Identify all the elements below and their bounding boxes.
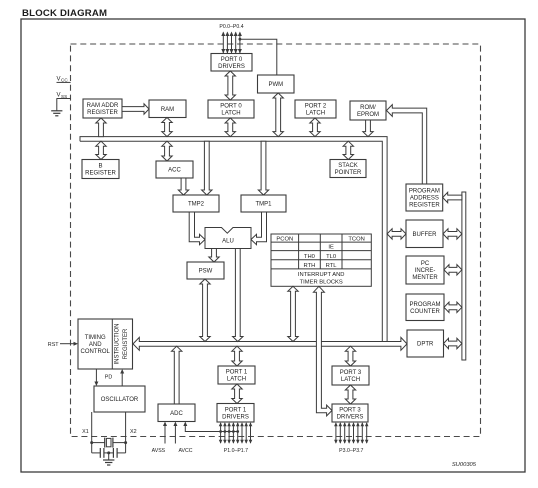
arrow interrupt blocks to PORT 3 DRIVERS (long L-shaped) — [313, 286, 332, 416]
pin AVCC arrow — [173, 422, 177, 444]
svg-text:ADC: ADC — [170, 411, 183, 417]
arrow bus / BUFFER — [387, 229, 406, 239]
arrow PSW / lower bus — [200, 279, 210, 342]
arrow bar to PROGRAM ADDRESS REGISTER — [443, 192, 462, 202]
svg-text:REGISTER: REGISTER — [409, 203, 440, 209]
svg-text:PORT 0: PORT 0 — [221, 57, 243, 63]
svg-text:PSW: PSW — [199, 269, 213, 275]
port 3 pin arrows P3.0-P3.7 — [334, 422, 368, 444]
svg-text:CC: CC — [61, 78, 68, 83]
arrow bus / B REGISTER — [96, 141, 106, 159]
svg-text:TL0: TL0 — [326, 254, 336, 260]
wire oscillator X1 leg — [91, 412, 93, 443]
wire X1 leg down — [91, 443, 93, 453]
text TIMING AND CONTROL — [81, 335, 111, 355]
svg-text:PORT 1: PORT 1 — [225, 407, 247, 413]
arrow PROGRAM COUNTER / bar — [444, 302, 462, 312]
ground (crystal) — [103, 453, 114, 465]
svg-text:COUNTER: COUNTER — [410, 309, 440, 315]
svg-text:BLOCK DIAGRAM: BLOCK DIAGRAM — [22, 8, 107, 19]
svg-text:LATCH: LATCH — [306, 111, 325, 117]
svg-text:INTERRUPT AND: INTERRUPT AND — [298, 272, 345, 278]
arrow TMP1 to ALU (L-shaped) — [251, 212, 267, 245]
wire X2 leg down — [125, 443, 127, 453]
svg-text:PROGRAM: PROGRAM — [409, 302, 440, 308]
block PORT 3 LATCH — [332, 366, 369, 385]
svg-text:INCRE-: INCRE- — [415, 268, 436, 274]
svg-text:ACC: ACC — [168, 168, 181, 174]
node X2 junction — [124, 441, 127, 444]
block ROM/EPROM — [350, 101, 386, 120]
pin VCC — [57, 76, 71, 82]
svg-text:INSTRUCTION: INSTRUCTION — [115, 324, 121, 365]
svg-text:REGISTER: REGISTER — [87, 110, 118, 116]
wire PROGRAM ADDRESS REGISTER to ROM/EPROM (bus arrow) — [387, 105, 427, 184]
pin VSS — [57, 93, 71, 99]
svg-text:TMP1: TMP1 — [255, 202, 272, 208]
block ALU (notched top) — [205, 228, 251, 249]
block TMP2 — [173, 195, 219, 212]
arrow TMP2 to ALU (L-shaped) — [189, 212, 205, 245]
crystal Y1 — [92, 438, 126, 448]
svg-text:AVSS: AVSS — [152, 448, 166, 454]
svg-text:PORT 3: PORT 3 — [340, 370, 362, 376]
svg-text:PORT 2: PORT 2 — [305, 104, 327, 110]
svg-text:AVCC: AVCC — [178, 448, 192, 454]
arrow lower bus / PORT 3 LATCH — [345, 346, 355, 366]
arrow ROM/EPROM to bus — [363, 120, 373, 137]
arrow DPTR / bar — [444, 338, 462, 348]
svg-text:V: V — [57, 93, 61, 99]
svg-text:P1.0–P1.7: P1.0–P1.7 — [224, 448, 248, 454]
block PSW — [187, 262, 224, 279]
svg-text:MENTER: MENTER — [412, 275, 438, 281]
block STACK POINTER — [330, 160, 366, 178]
svg-text:PD: PD — [105, 374, 113, 380]
block DPTR — [407, 330, 444, 357]
svg-text:LATCH: LATCH — [227, 377, 246, 383]
arrow lower bus / PORT 1 LATCH — [232, 346, 242, 366]
svg-text:TMP2: TMP2 — [188, 202, 205, 208]
svg-text:RAM: RAM — [161, 107, 174, 113]
arrow port0 drivers / port0 latch — [225, 71, 235, 100]
svg-text:SU00305: SU00305 — [452, 462, 477, 468]
svg-text:PWM: PWM — [268, 82, 283, 88]
arrow ALU to lower bus — [233, 249, 243, 342]
svg-text:AND: AND — [89, 342, 102, 348]
arrow timing to oscillator — [94, 369, 98, 386]
svg-text:BUFFER: BUFFER — [413, 232, 438, 238]
svg-text:TIMING: TIMING — [85, 335, 106, 341]
svg-text:OSCILLATOR: OSCILLATOR — [101, 397, 139, 403]
block PROGRAM COUNTER — [406, 294, 444, 321]
block TIMING AND CONTROL with INSTRUCTION REGISTER — [78, 319, 133, 369]
svg-text:CONTROL: CONTROL — [81, 349, 111, 355]
svg-text:PROGRAM: PROGRAM — [409, 189, 440, 195]
arrow bus to TMP2 — [202, 141, 212, 195]
svg-text:PC: PC — [421, 261, 430, 267]
svg-text:RTH: RTH — [303, 263, 315, 269]
svg-text:DRIVERS: DRIVERS — [218, 64, 245, 70]
port 0 pin arrows P0.0-P0.4 — [221, 32, 242, 54]
main bus upper (horizontal, with right-side vertical wrap) — [80, 137, 387, 342]
block PORT 2 LATCH — [295, 100, 336, 118]
svg-text:RST: RST — [48, 342, 59, 348]
divider timing/instruction register — [111, 319, 113, 369]
block PWM — [258, 75, 295, 93]
svg-text:RTL: RTL — [326, 263, 338, 269]
arrow PWM / bus — [273, 93, 283, 137]
block PORT 1 DRIVERS — [217, 404, 254, 423]
arrow oscillator to instruction register — [120, 369, 124, 386]
arrow bus to TMP1 — [258, 141, 268, 195]
main bus lower (horizontal, arrow into instruction register and into DPTR) — [133, 337, 407, 350]
svg-text:TCON: TCON — [348, 236, 364, 242]
block RAM — [149, 100, 186, 118]
block PROGRAM ADDRESS REGISTER — [406, 184, 443, 211]
block PORT 0 DRIVERS — [211, 54, 252, 72]
block PC INCREMENTER — [406, 256, 444, 284]
svg-text:DRIVERS: DRIVERS — [222, 414, 249, 420]
arrow PORT 2 LATCH / bus — [310, 118, 320, 137]
svg-text:P0.0–P0.4: P0.0–P0.4 — [219, 24, 243, 30]
svg-text:POINTER: POINTER — [335, 170, 362, 176]
svg-text:ADDRESS: ADDRESS — [410, 196, 439, 202]
table INTERRUPT AND TIMER BLOCKS (PCON TCON IE TH0 TL0 RTH RTL) — [271, 234, 371, 286]
text INSTRUCTION REGISTER (vertical) — [115, 324, 130, 365]
svg-text:REGISTER: REGISTER — [85, 171, 116, 177]
svg-text:PCON: PCON — [276, 236, 293, 242]
block BUFFER — [406, 220, 443, 248]
arrow bus / STACK POINTER — [343, 141, 353, 159]
svg-text:LATCH: LATCH — [341, 377, 360, 383]
arrow BUFFER / bar — [443, 229, 462, 239]
svg-text:DRIVERS: DRIVERS — [337, 415, 364, 421]
svg-text:DPTR: DPTR — [417, 342, 434, 348]
svg-text:IE: IE — [328, 245, 334, 251]
svg-text:STACK: STACK — [338, 163, 358, 169]
svg-text:EPROM: EPROM — [357, 112, 379, 118]
dashed chip boundary — [71, 44, 481, 437]
arrow PORT 3 LATCH / PORT 3 DRIVERS — [345, 385, 355, 404]
arrow bus / ACC — [162, 141, 172, 161]
svg-text:X2: X2 — [130, 429, 137, 435]
wire pin P0.4 to PWM — [239, 38, 277, 75]
wire analog input from port1 pins to ADC (with junction dots) — [183, 422, 239, 433]
svg-text:PORT 3: PORT 3 — [339, 408, 361, 414]
port 1 pin arrows P1.0-P1.7 — [219, 422, 253, 444]
node capacitor midpoint — [107, 451, 110, 454]
wire oscillator X2 leg — [125, 412, 127, 443]
pin AVSS arrow — [163, 422, 167, 444]
block B REGISTER — [82, 160, 119, 179]
svg-text:LATCH: LATCH — [221, 111, 240, 117]
arrow bus to RAM ADDR REGISTER — [96, 118, 106, 137]
arrow ALU to PSW — [209, 249, 219, 263]
svg-text:P3.0–P3.7: P3.0–P3.7 — [339, 448, 363, 454]
block OSCILLATOR — [94, 386, 145, 412]
arrow RAM ADDR REGISTER to RAM — [122, 104, 149, 114]
capacitor C1 — [92, 448, 109, 458]
block PORT 0 LATCH — [208, 100, 254, 118]
program bus bar (right vertical) — [462, 192, 466, 360]
svg-text:TIMER BLOCKS: TIMER BLOCKS — [300, 279, 343, 285]
block PORT 3 DRIVERS — [332, 404, 368, 422]
arrow interrupt blocks / lower bus — [288, 286, 298, 341]
block ADC — [158, 404, 195, 422]
arrow PORT 0 LATCH / bus — [225, 118, 235, 137]
block TMP1 — [241, 195, 286, 212]
block ACC — [156, 161, 193, 178]
arrow ADC to lower bus — [172, 346, 182, 404]
svg-text:ALU: ALU — [222, 238, 234, 244]
capacitor C2 — [109, 448, 126, 458]
svg-text:V: V — [57, 76, 61, 82]
svg-text:TH0: TH0 — [304, 254, 315, 260]
svg-text:PORT 1: PORT 1 — [226, 370, 248, 376]
node X1 junction — [90, 441, 93, 444]
svg-text:ROM/: ROM/ — [360, 105, 376, 111]
block RAM ADDR REGISTER — [83, 99, 122, 118]
svg-text:REGISTER: REGISTER — [123, 328, 129, 359]
svg-text:B: B — [98, 164, 102, 170]
arrow RAM / bus — [162, 118, 172, 137]
ground (VSS) — [51, 99, 62, 116]
block PORT 1 LATCH — [218, 366, 255, 384]
svg-text:X1: X1 — [82, 429, 89, 435]
svg-text:PORT 0: PORT 0 — [220, 104, 242, 110]
arrow RST into timing and control — [60, 342, 78, 346]
svg-text:RAM ADDR: RAM ADDR — [87, 103, 119, 109]
arrow PC INCREMENTER / bar — [444, 265, 462, 275]
arrow PORT 1 LATCH / PORT 1 DRIVERS — [232, 384, 242, 404]
arrow ACC to TMP2 — [178, 178, 188, 195]
